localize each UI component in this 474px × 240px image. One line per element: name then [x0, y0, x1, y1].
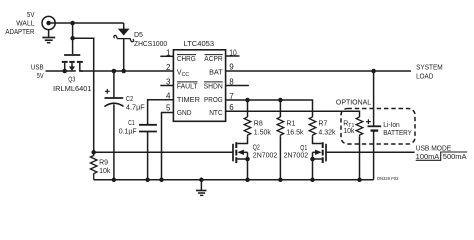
- svg-text:SHDN: SHDN: [204, 84, 223, 91]
- svg-text:10k: 10k: [343, 128, 355, 135]
- node ground tap: [199, 178, 204, 183]
- svg-text:USB MODE: USB MODE: [416, 145, 452, 152]
- svg-text:R7: R7: [318, 121, 327, 128]
- svg-text:4: 4: [166, 92, 171, 101]
- capacitor C1 0.1uF: [139, 125, 157, 180]
- svg-text:R1: R1: [286, 121, 295, 128]
- pin 3 FAULT stub: [160, 78, 173, 87]
- wire Q2 gate line: [94, 151, 233, 153]
- svg-text:Q3: Q3: [68, 77, 75, 84]
- wire GND pin5 to rail: [162, 113, 174, 180]
- svg-text:1: 1: [166, 48, 171, 57]
- svg-text:SYSTEM: SYSTEM: [416, 65, 443, 72]
- label Q3: [53, 77, 92, 94]
- svg-text:WALL: WALL: [16, 20, 34, 27]
- svg-text:GND: GND: [177, 110, 192, 117]
- pin 1 CHRG stub: [160, 48, 173, 57]
- svg-text:1.50k: 1.50k: [254, 130, 272, 137]
- wall adapter jack J1: [42, 16, 55, 29]
- resistor R1 16.5k: [277, 100, 284, 180]
- label Q1: [284, 145, 309, 159]
- svg-text:5V: 5V: [37, 73, 44, 80]
- transistor Q2 2N7002: [233, 136, 248, 180]
- svg-text:3: 3: [166, 78, 171, 87]
- wire VCC rail to pin 2: [80, 70, 174, 72]
- wire Q1 gate to USB MODE: [326, 151, 415, 153]
- label R1: [286, 121, 304, 137]
- node R8 top: [245, 98, 250, 103]
- wire USB input: [46, 70, 65, 72]
- label Li-Ion BATTERY: [383, 122, 412, 137]
- node C1 on rail: [145, 178, 150, 183]
- svg-text:10k: 10k: [99, 168, 111, 175]
- label Q2: [253, 145, 278, 160]
- svg-text:IRLML6401: IRLML6401: [53, 86, 92, 93]
- label D5: [134, 32, 167, 48]
- node GND wire on rail: [159, 178, 164, 183]
- label USB 5V: [31, 65, 44, 81]
- node Q2 body-source: [245, 157, 250, 162]
- op-amp U1 LTC4053 outline: [173, 50, 225, 122]
- label 5V WALL ADAPTER: [5, 12, 34, 36]
- svg-text:DN320 F02: DN320 F02: [377, 176, 399, 181]
- svg-text:R8: R8: [254, 121, 263, 128]
- svg-text:4.32k: 4.32k: [318, 130, 336, 137]
- pin 10 ACPR stub: [226, 48, 240, 57]
- svg-text:PROG: PROG: [204, 97, 223, 104]
- label R9: [99, 160, 111, 176]
- wire PROG pin7 net: [226, 100, 313, 117]
- node C2 on rail: [112, 178, 117, 183]
- resistor R7 4.32k: [309, 117, 316, 136]
- transistor Q1 2N7002: [313, 136, 327, 180]
- IC pin names: [177, 56, 224, 117]
- label C1: [119, 120, 137, 136]
- svg-text:ZHCS1000: ZHCS1000: [134, 41, 167, 48]
- svg-text:LTC4053: LTC4053: [184, 41, 215, 48]
- diode D5 ZHCS1000: [114, 23, 134, 71]
- svg-text:BATTERY: BATTERY: [383, 130, 412, 137]
- svg-text:R9: R9: [99, 160, 108, 167]
- svg-text:C1: C1: [128, 120, 135, 127]
- thermistor RT1 10k: [356, 117, 363, 180]
- svg-text:Li-Ion: Li-Ion: [383, 122, 400, 129]
- wire adapter output to D5: [55, 22, 124, 24]
- node R1 top: [278, 98, 283, 103]
- svg-text:NTC: NTC: [209, 110, 223, 117]
- svg-text:LOAD: LOAD: [416, 74, 433, 81]
- wire ground rail: [94, 179, 374, 181]
- svg-text:BAT: BAT: [209, 70, 223, 77]
- node Q2 source on rail: [245, 178, 250, 183]
- svg-text:2N7002: 2N7002: [253, 152, 278, 159]
- svg-text:8: 8: [229, 77, 234, 86]
- node RT1 on rail: [357, 178, 362, 183]
- capacitor C2 4.7uF: [104, 71, 123, 180]
- pin 8 SHDN stub: [226, 77, 249, 86]
- label USB MODE waveform: [416, 145, 467, 160]
- wire TIMER pin4 to C1: [148, 100, 174, 124]
- node Q3 source/body: [62, 69, 67, 74]
- svg-text:4.7µF: 4.7µF: [126, 105, 145, 112]
- ground (rail): [196, 180, 207, 196]
- svg-text:ACPR: ACPR: [204, 56, 222, 63]
- svg-text:Q1: Q1: [300, 145, 307, 152]
- svg-text:10: 10: [229, 48, 237, 57]
- label R8: [254, 121, 272, 137]
- svg-text:5V: 5V: [27, 12, 35, 19]
- svg-text:C2: C2: [126, 96, 133, 103]
- node D5 cathode on VCC: [121, 69, 126, 74]
- svg-text:Q2: Q2: [253, 145, 260, 152]
- node gate/R9 tee: [70, 36, 75, 41]
- svg-text:ADAPTER: ADAPTER: [5, 29, 34, 36]
- svg-text:CHRG: CHRG: [177, 56, 196, 63]
- node C2 tap on VCC: [112, 69, 117, 74]
- label RT1: [343, 120, 355, 135]
- label C2: [126, 96, 145, 112]
- label SYSTEM LOAD: [416, 65, 443, 81]
- svg-text:USB: USB: [31, 65, 44, 72]
- wire BAT pin9 to system load: [226, 70, 411, 72]
- svg-text:5: 5: [166, 104, 171, 113]
- wire gate vertical: [72, 23, 74, 54]
- svg-text:OPTIONAL: OPTIONAL: [336, 100, 371, 107]
- svg-text:16.5k: 16.5k: [286, 130, 304, 137]
- svg-text:2: 2: [166, 63, 171, 72]
- battery BT1 Li-Ion: [366, 71, 381, 180]
- svg-text:FAULT: FAULT: [177, 84, 198, 91]
- svg-text:D5: D5: [134, 32, 143, 39]
- wire tee to R9 column: [73, 38, 94, 152]
- svg-text:CC: CC: [182, 72, 190, 78]
- resistor R8 1.50k: [244, 100, 251, 136]
- node R9 top: [91, 150, 96, 155]
- svg-text:0.1µF: 0.1µF: [119, 129, 137, 136]
- node Q1 body-source: [310, 157, 315, 162]
- svg-text:500mA: 500mA: [443, 154, 467, 161]
- node Q1 source on rail: [310, 178, 315, 183]
- wire NTC pin6 to RT1: [226, 111, 360, 117]
- resistor R9 10k: [90, 152, 97, 180]
- label R7: [318, 121, 336, 137]
- ground (wall adapter): [42, 29, 55, 43]
- transistor Q3 IRLML6401: [62, 55, 83, 71]
- node adapter/gate tap: [70, 21, 75, 26]
- node R1 on rail: [278, 178, 283, 183]
- svg-text:2N7002: 2N7002: [284, 152, 309, 159]
- node battery tap: [371, 69, 376, 74]
- svg-text:TIMER: TIMER: [177, 97, 200, 104]
- optional dashed box: [341, 109, 415, 145]
- overlines active-low pins: [177, 55, 223, 82]
- waveform step 100mA/500mA: [416, 152, 468, 160]
